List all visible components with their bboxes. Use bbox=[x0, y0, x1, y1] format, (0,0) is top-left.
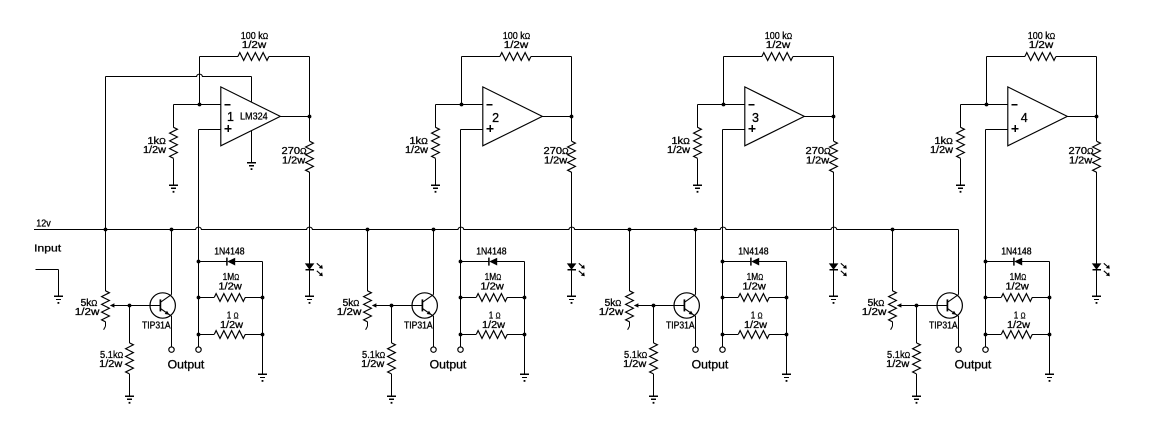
wire 1M right (stage 3) bbox=[769, 297, 786, 299]
wire output to 270 ohm (stage 2) bbox=[571, 117, 573, 142]
resistor 100kΩ feedback (stage 4) bbox=[1025, 53, 1056, 61]
label 1M value (stage 4) bbox=[1010, 272, 1027, 283]
node 1ohm right junction (stage 1) bbox=[261, 333, 265, 337]
transistor Q2 TIP31A (stage 2) bbox=[412, 293, 437, 318]
node 1ohm right junction (stage 4) bbox=[1048, 333, 1052, 337]
wire output column top (stage 2) bbox=[571, 57, 573, 117]
wire LED cathode to ground (stage 2) bbox=[571, 270, 573, 297]
wire 1k bottom (stage 2) bbox=[435, 158, 437, 185]
node output junction (stage 1) bbox=[308, 115, 312, 119]
wire op-amp output (stage 4) bbox=[1067, 116, 1096, 118]
wire 1M left (stage 4) bbox=[986, 297, 1002, 299]
label 100k value (stage 3) bbox=[765, 31, 792, 42]
wire 270 ohm to LED anode (stage 2) bbox=[571, 172, 573, 263]
wire 5.1k top (stage 4) bbox=[916, 306, 918, 343]
terminal output network circle (stage 4) bbox=[983, 347, 988, 352]
wire 1k bottom (stage 3) bbox=[697, 158, 699, 185]
wire feedback top left (stage 1) bbox=[200, 56, 238, 58]
svg-text:1: 1 bbox=[227, 110, 234, 124]
node output junction (stage 2) bbox=[570, 115, 574, 119]
wire non-inverting input (stage 2) bbox=[461, 129, 483, 131]
node 12v rail junction pot feed (stage 3) bbox=[628, 228, 632, 232]
label op-amp section number 1 bbox=[227, 110, 234, 124]
wire non-inverting input (stage 1) bbox=[199, 129, 221, 131]
label 1ohm value (stage 2) bbox=[489, 311, 501, 322]
wire 1ohm left (stage 1) bbox=[199, 334, 215, 336]
label 270 wattage 1/2w (stage 2) bbox=[544, 155, 568, 166]
op-amp U1d LM324 section 4 bbox=[1008, 87, 1068, 146]
potentiometer 5kΩ (stage 3) bbox=[626, 291, 634, 330]
node 12v rail junction pot feed (stage 4) bbox=[891, 228, 895, 232]
wire feedback top left (stage 4) bbox=[987, 56, 1025, 58]
resistor 1Ω (stage 1) bbox=[214, 331, 245, 339]
node output junction (stage 4) bbox=[1095, 115, 1099, 119]
wire emitter to output terminal (stage 2) bbox=[433, 316, 435, 347]
wire collector to rail (stage 4) bbox=[958, 230, 960, 295]
label 1k wattage 1/2w (stage 2) bbox=[405, 145, 429, 156]
wire 5.1k top (stage 2) bbox=[391, 306, 393, 343]
op-amp minus pin glyph (stage 2) bbox=[487, 104, 493, 106]
label 1M value (stage 1) bbox=[223, 272, 240, 283]
wire non-inverting input vertical down to diode network (stage 3) bbox=[722, 130, 724, 347]
resistor 1kΩ (stage 2) bbox=[432, 127, 440, 158]
wire pot wiper to transistor base (stage 1) bbox=[110, 303, 160, 307]
label 100k wattage 1/2w (stage 3) bbox=[766, 40, 791, 51]
label 5k value (stage 1) bbox=[81, 298, 98, 309]
label 1k value (stage 3) bbox=[671, 136, 690, 147]
LED light emission arrows (stage 2) bbox=[579, 263, 585, 276]
svg-text:1/2w: 1/2w bbox=[1005, 281, 1029, 292]
resistor 100kΩ feedback (stage 3) bbox=[762, 53, 793, 61]
resistor 270Ω (stage 3) bbox=[830, 141, 838, 172]
label 5.1k value (stage 2) bbox=[362, 350, 385, 361]
svg-text:2: 2 bbox=[492, 111, 499, 125]
node 1M right junction (stage 1) bbox=[261, 296, 265, 300]
resistor 5.1kΩ (stage 3) bbox=[650, 343, 658, 374]
svg-text:1N4148: 1N4148 bbox=[214, 246, 245, 257]
wire 12v feed vertical stage 1 bbox=[105, 77, 107, 291]
wire 1k top (stage 4) bbox=[960, 105, 962, 128]
LED indicator diode (stage 1) bbox=[306, 264, 314, 270]
node rail collector junction (stage 2) bbox=[432, 228, 436, 232]
svg-text:1/2w: 1/2w bbox=[143, 145, 167, 156]
svg-text:1N4148: 1N4148 bbox=[738, 246, 769, 257]
svg-text:4: 4 bbox=[1021, 111, 1028, 125]
node 1M left junction (stage 1) bbox=[197, 296, 201, 300]
label 100k value (stage 4) bbox=[1028, 31, 1055, 42]
label 1N4148 (stage 3) bbox=[738, 246, 769, 257]
label 5k value (stage 4) bbox=[868, 298, 885, 309]
wire non-inverting input vertical down to diode network (stage 2) bbox=[460, 130, 462, 347]
node network left diode junction (stage 3) bbox=[721, 260, 725, 264]
terminal output emitter circle (stage 4) bbox=[956, 347, 961, 352]
svg-text:Output: Output bbox=[692, 359, 730, 371]
resistor 1MΩ (stage 4) bbox=[1001, 294, 1032, 302]
resistor 1kΩ (stage 4) bbox=[957, 127, 965, 158]
op-amp U1b LM324 section 2 bbox=[483, 87, 543, 146]
ground LED (stage 3) bbox=[829, 296, 838, 303]
wire network right rail (stage 4) bbox=[1049, 262, 1051, 375]
label 1N4148 (stage 1) bbox=[214, 246, 245, 257]
node network left diode junction (stage 4) bbox=[984, 260, 988, 264]
svg-text:Input: Input bbox=[34, 243, 61, 255]
wire 1ohm left (stage 4) bbox=[986, 334, 1002, 336]
wire 1M left (stage 2) bbox=[461, 297, 477, 299]
label 5.1k value (stage 4) bbox=[887, 350, 910, 361]
ground 1k resistor (stage 2) bbox=[431, 185, 440, 192]
resistor 1Ω (stage 4) bbox=[1001, 331, 1032, 339]
node wiper junction (stage 2) bbox=[390, 304, 394, 308]
label 100k wattage 1/2w (stage 2) bbox=[504, 40, 529, 51]
LED light emission arrows (stage 1) bbox=[317, 263, 323, 276]
svg-text:1/2w: 1/2w bbox=[282, 155, 306, 166]
label 100k value (stage 2) bbox=[503, 31, 530, 42]
label Output (stage 4) bbox=[955, 359, 993, 371]
svg-text:12v: 12v bbox=[36, 219, 51, 230]
wire 270 ohm to LED anode (stage 4) bbox=[1096, 172, 1098, 263]
wire 5.1k top (stage 1) bbox=[129, 306, 131, 343]
label 5k wattage 1/2w (stage 2) bbox=[337, 307, 363, 318]
ground network right rail (stage 1) bbox=[258, 374, 267, 381]
ground LED (stage 4) bbox=[1092, 296, 1101, 303]
wire feedback vertical to inverting input (stage 4) bbox=[986, 57, 988, 105]
resistor 5.1kΩ (stage 2) bbox=[388, 343, 396, 374]
power rail 12v wire with hops bbox=[34, 227, 959, 229]
wire emitter to output terminal (stage 3) bbox=[695, 316, 697, 347]
ground input bbox=[54, 296, 63, 303]
svg-text:Output: Output bbox=[168, 359, 206, 371]
label 270 value (stage 4) bbox=[1069, 146, 1094, 157]
wire inverting input (stage 3) bbox=[698, 104, 745, 106]
label 100k wattage 1/2w (stage 1) bbox=[242, 40, 267, 51]
wire feedback top left (stage 3) bbox=[724, 56, 762, 58]
label TIP31A (stage 2) bbox=[404, 321, 433, 332]
ground LED (stage 2) bbox=[567, 296, 576, 303]
svg-text:1/2w: 1/2w bbox=[99, 359, 123, 370]
resistor 100kΩ feedback (stage 2) bbox=[500, 53, 531, 61]
svg-text:LM324: LM324 bbox=[240, 112, 268, 123]
label 1M value (stage 2) bbox=[485, 272, 502, 283]
op-amp plus pin glyph (stage 2) bbox=[487, 125, 494, 132]
label 1ohm value (stage 3) bbox=[751, 311, 763, 322]
label 1N4148 (stage 2) bbox=[476, 246, 507, 257]
resistor 1MΩ (stage 2) bbox=[476, 294, 507, 302]
label 5k value (stage 2) bbox=[343, 298, 360, 309]
label 1ohm value (stage 1) bbox=[227, 311, 239, 322]
svg-text:Output: Output bbox=[955, 359, 993, 371]
op-amp plus pin glyph (stage 3) bbox=[749, 125, 756, 132]
svg-text:1N4148: 1N4148 bbox=[476, 246, 507, 257]
svg-text:1/2w: 1/2w bbox=[242, 40, 267, 51]
label Output (stage 2) bbox=[430, 359, 468, 371]
op-amp minus pin glyph (stage 4) bbox=[1012, 104, 1018, 106]
resistor 5.1kΩ (stage 4) bbox=[913, 343, 921, 374]
wire emitter to output terminal (stage 1) bbox=[171, 316, 173, 347]
wire output column top (stage 1) bbox=[309, 57, 311, 117]
diode D1 1N4148 (stage 1) bbox=[199, 258, 263, 266]
label 1ohm wattage 1/2w (stage 2) bbox=[482, 320, 506, 331]
label op-amp section number 3 bbox=[752, 111, 759, 125]
wire non-inverting input vertical down to diode network (stage 1) bbox=[198, 130, 200, 347]
terminal output network circle (stage 1) bbox=[196, 347, 201, 352]
svg-text:1/2w: 1/2w bbox=[218, 281, 242, 292]
label 5.1k wattage 1/2w (stage 4) bbox=[886, 359, 910, 370]
node wiper junction (stage 1) bbox=[128, 304, 132, 308]
net 12v label bbox=[36, 219, 51, 230]
svg-text:1/2w: 1/2w bbox=[504, 40, 529, 51]
wire 1M right (stage 1) bbox=[245, 297, 262, 299]
terminal output network circle (stage 3) bbox=[720, 347, 725, 352]
node 1ohm left junction (stage 4) bbox=[984, 333, 988, 337]
label 1M wattage 1/2w (stage 4) bbox=[1005, 281, 1029, 292]
transistor Q1 TIP31A (stage 1) bbox=[150, 293, 175, 318]
wire 5.1k bottom (stage 4) bbox=[916, 374, 918, 396]
wire op-amp output (stage 3) bbox=[804, 116, 833, 118]
wire LED cathode to ground (stage 1) bbox=[309, 270, 311, 297]
resistor 270Ω (stage 2) bbox=[568, 141, 576, 172]
node 12v rail junction pot feed (stage 1) bbox=[104, 228, 108, 232]
label 5.1k wattage 1/2w (stage 1) bbox=[99, 359, 123, 370]
node 1M left junction (stage 4) bbox=[984, 296, 988, 300]
label 100k wattage 1/2w (stage 4) bbox=[1029, 40, 1054, 51]
potentiometer 5kΩ (stage 4) bbox=[889, 291, 897, 330]
LED indicator diode (stage 2) bbox=[568, 264, 576, 270]
ground op-amp V- pin bbox=[247, 163, 256, 170]
node inverting input junction (stage 2) bbox=[460, 103, 464, 107]
wire op-amp V- pin bbox=[251, 131, 253, 163]
op-amp plus pin glyph (stage 4) bbox=[1012, 125, 1019, 132]
wire emitter to output terminal (stage 4) bbox=[958, 316, 960, 347]
wire 12v feed vertical (stage 3) bbox=[629, 230, 631, 291]
label TIP31A (stage 1) bbox=[142, 321, 171, 332]
wire 1M left (stage 1) bbox=[199, 297, 215, 299]
wire 270 ohm to LED anode (stage 3) bbox=[833, 172, 835, 263]
ground 5.1k resistor (stage 1) bbox=[125, 396, 134, 403]
label 1k value (stage 2) bbox=[409, 136, 428, 147]
LED indicator diode (stage 3) bbox=[830, 264, 838, 270]
wire LED cathode to ground (stage 4) bbox=[1096, 270, 1098, 297]
svg-text:1/2w: 1/2w bbox=[75, 307, 101, 318]
ground 1k resistor (stage 3) bbox=[693, 185, 702, 192]
wire 1ohm right (stage 1) bbox=[245, 334, 262, 336]
resistor 270Ω (stage 1) bbox=[306, 141, 314, 172]
node 12v rail junction pot feed (stage 2) bbox=[366, 228, 370, 232]
wire network right rail (stage 1) bbox=[262, 262, 264, 375]
wire non-inverting input (stage 4) bbox=[986, 129, 1008, 131]
label 1k wattage 1/2w (stage 4) bbox=[930, 145, 954, 156]
potentiometer 5kΩ (stage 2) bbox=[364, 291, 372, 330]
node 1ohm left junction (stage 2) bbox=[459, 333, 463, 337]
label 1M wattage 1/2w (stage 3) bbox=[742, 281, 766, 292]
wire 1k top (stage 2) bbox=[435, 105, 437, 128]
node 1M right junction (stage 3) bbox=[785, 296, 789, 300]
label 5.1k wattage 1/2w (stage 2) bbox=[361, 359, 385, 370]
svg-text:1/2w: 1/2w bbox=[480, 281, 504, 292]
wire collector to rail (stage 1) bbox=[171, 230, 173, 295]
label 1ohm wattage 1/2w (stage 1) bbox=[220, 320, 244, 331]
wire 270 ohm to LED anode (stage 1) bbox=[309, 172, 311, 263]
svg-text:1/2w: 1/2w bbox=[544, 155, 568, 166]
svg-text:1/2w: 1/2w bbox=[599, 307, 625, 318]
node inverting input junction (stage 3) bbox=[722, 103, 726, 107]
ground 5.1k resistor (stage 3) bbox=[649, 396, 658, 403]
svg-text:TIP31A: TIP31A bbox=[929, 321, 958, 332]
node rail collector junction (stage 1) bbox=[170, 228, 174, 232]
svg-text:1/2w: 1/2w bbox=[405, 145, 429, 156]
wire 1M right (stage 2) bbox=[507, 297, 524, 299]
wire 1ohm right (stage 2) bbox=[507, 334, 524, 336]
wire output to 270 ohm (stage 4) bbox=[1096, 117, 1098, 142]
label 100k value (stage 1) bbox=[241, 31, 268, 42]
label Output (stage 1) bbox=[168, 359, 206, 371]
svg-text:1/2w: 1/2w bbox=[886, 359, 910, 370]
wire feedback vertical to inverting input (stage 3) bbox=[723, 57, 725, 105]
ground 5.1k resistor (stage 4) bbox=[912, 396, 921, 403]
diode D2 1N4148 (stage 2) bbox=[461, 258, 525, 266]
svg-text:1/2w: 1/2w bbox=[361, 359, 385, 370]
wire inverting input (stage 1) bbox=[174, 104, 221, 106]
resistor 270Ω (stage 4) bbox=[1093, 141, 1101, 172]
label 5k wattage 1/2w (stage 3) bbox=[599, 307, 625, 318]
ground network right rail (stage 3) bbox=[782, 374, 791, 381]
wire 5.1k top (stage 3) bbox=[653, 306, 655, 343]
terminal output emitter circle (stage 3) bbox=[693, 347, 698, 352]
label Output (stage 3) bbox=[692, 359, 730, 371]
svg-text:1N4148: 1N4148 bbox=[1001, 246, 1032, 257]
wire op-amp output (stage 1) bbox=[280, 116, 309, 118]
node 1M right junction (stage 2) bbox=[523, 296, 527, 300]
ground 1k resistor (stage 4) bbox=[956, 185, 965, 192]
wire network right rail (stage 3) bbox=[786, 262, 788, 375]
resistor 100kΩ feedback (stage 1) bbox=[238, 53, 269, 61]
node network left diode junction (stage 1) bbox=[197, 260, 201, 264]
wire feedback vertical to inverting input (stage 1) bbox=[199, 57, 201, 105]
node 1M left junction (stage 3) bbox=[721, 296, 725, 300]
resistor 1Ω (stage 3) bbox=[738, 331, 769, 339]
wire collector to rail (stage 2) bbox=[433, 230, 435, 295]
label 270 wattage 1/2w (stage 3) bbox=[806, 155, 830, 166]
wire op-amp V+ supply from 12v rail bbox=[106, 74, 252, 101]
wire 12v feed vertical (stage 4) bbox=[892, 230, 894, 291]
svg-text:1/2w: 1/2w bbox=[744, 320, 768, 331]
label 1ohm wattage 1/2w (stage 3) bbox=[744, 320, 768, 331]
wire feedback top left (stage 2) bbox=[462, 56, 500, 58]
label 270 value (stage 3) bbox=[806, 146, 831, 157]
wire inverting input (stage 4) bbox=[961, 104, 1008, 106]
svg-text:TIP31A: TIP31A bbox=[404, 321, 433, 332]
wire 1k top (stage 1) bbox=[173, 105, 175, 128]
LED light emission arrows (stage 4) bbox=[1104, 263, 1110, 276]
wire 5.1k bottom (stage 1) bbox=[129, 374, 131, 396]
node 1ohm right junction (stage 2) bbox=[523, 333, 527, 337]
node 1M left junction (stage 2) bbox=[459, 296, 463, 300]
wire 5.1k bottom (stage 2) bbox=[391, 374, 393, 396]
terminal output emitter circle (stage 2) bbox=[431, 347, 436, 352]
node wiper junction (stage 4) bbox=[915, 304, 919, 308]
wire 1k bottom (stage 1) bbox=[173, 158, 175, 185]
resistor 1Ω (stage 2) bbox=[476, 331, 507, 339]
label 1M wattage 1/2w (stage 1) bbox=[218, 281, 242, 292]
node inverting input junction (stage 1) bbox=[198, 103, 202, 107]
node network left diode junction (stage 2) bbox=[459, 260, 463, 264]
wire op-amp output (stage 2) bbox=[542, 116, 571, 118]
terminal output emitter circle (stage 1) bbox=[169, 347, 174, 352]
label 1ohm value (stage 4) bbox=[1014, 311, 1026, 322]
wire non-inverting input vertical down to diode network (stage 4) bbox=[985, 130, 987, 347]
wire pot wiper to transistor base (stage 3) bbox=[634, 303, 685, 307]
transistor Q3 TIP31A (stage 3) bbox=[674, 293, 699, 318]
wire LED cathode to ground (stage 3) bbox=[833, 270, 835, 297]
svg-text:1/2w: 1/2w bbox=[1007, 320, 1031, 331]
ground network right rail (stage 4) bbox=[1045, 374, 1054, 381]
svg-text:1/2w: 1/2w bbox=[862, 307, 888, 318]
transistor Q4 TIP31A (stage 4) bbox=[937, 293, 962, 318]
wire 1ohm left (stage 3) bbox=[723, 334, 739, 336]
wire 12v feed vertical (stage 2) bbox=[367, 230, 369, 291]
label 1M wattage 1/2w (stage 2) bbox=[480, 281, 504, 292]
wire 1M right (stage 4) bbox=[1032, 297, 1049, 299]
wire 5.1k bottom (stage 3) bbox=[653, 374, 655, 396]
op-amp U1c LM324 section 3 bbox=[745, 87, 805, 146]
ground 5.1k resistor (stage 2) bbox=[387, 396, 396, 403]
node 1ohm right junction (stage 3) bbox=[785, 333, 789, 337]
wire collector to rail (stage 3) bbox=[695, 230, 697, 295]
wire network right rail (stage 2) bbox=[524, 262, 526, 375]
node rail collector junction (stage 3) bbox=[694, 228, 698, 232]
wire output to 270 ohm (stage 1) bbox=[309, 117, 311, 142]
node 1ohm left junction (stage 3) bbox=[721, 333, 725, 337]
node Input label bbox=[34, 243, 61, 255]
svg-text:3: 3 bbox=[752, 111, 759, 125]
svg-text:1/2w: 1/2w bbox=[742, 281, 766, 292]
label 1k wattage 1/2w (stage 1) bbox=[143, 145, 167, 156]
ground LED (stage 1) bbox=[305, 296, 314, 303]
node 1ohm left junction (stage 1) bbox=[197, 333, 201, 337]
label 1N4148 (stage 4) bbox=[1001, 246, 1032, 257]
ground 1k resistor (stage 1) bbox=[169, 185, 178, 192]
wire output to 270 ohm (stage 3) bbox=[833, 117, 835, 142]
label 5.1k wattage 1/2w (stage 3) bbox=[623, 359, 647, 370]
svg-text:1/2w: 1/2w bbox=[667, 145, 691, 156]
label 1k wattage 1/2w (stage 3) bbox=[667, 145, 691, 156]
node inverting input junction (stage 4) bbox=[985, 103, 989, 107]
label 5.1k value (stage 3) bbox=[624, 350, 647, 361]
svg-text:1/2w: 1/2w bbox=[220, 320, 244, 331]
wire 1ohm left (stage 2) bbox=[461, 334, 477, 336]
svg-text:1/2w: 1/2w bbox=[766, 40, 791, 51]
svg-text:1/2w: 1/2w bbox=[337, 307, 363, 318]
wire feedback top right (stage 3) bbox=[793, 56, 833, 58]
wire feedback top right (stage 2) bbox=[531, 56, 571, 58]
svg-text:TIP31A: TIP31A bbox=[666, 321, 695, 332]
label op-amp section number 4 bbox=[1021, 111, 1028, 125]
wire feedback top right (stage 1) bbox=[269, 56, 309, 58]
resistor 1kΩ (stage 1) bbox=[170, 127, 178, 158]
svg-text:Output: Output bbox=[430, 359, 468, 371]
ground network right rail (stage 2) bbox=[520, 374, 529, 381]
label 1k value (stage 1) bbox=[147, 136, 166, 147]
resistor 1MΩ (stage 3) bbox=[738, 294, 769, 302]
wire pot wiper to transistor base (stage 2) bbox=[372, 303, 423, 307]
label 270 value (stage 1) bbox=[282, 146, 307, 157]
wire output column top (stage 4) bbox=[1096, 57, 1098, 117]
wire feedback top right (stage 4) bbox=[1056, 56, 1096, 58]
label 270 wattage 1/2w (stage 4) bbox=[1069, 155, 1093, 166]
label 270 value (stage 2) bbox=[544, 146, 569, 157]
label op-amp section number 2 bbox=[492, 111, 499, 125]
label 270 wattage 1/2w (stage 1) bbox=[282, 155, 306, 166]
resistor 5.1kΩ (stage 1) bbox=[126, 343, 134, 374]
